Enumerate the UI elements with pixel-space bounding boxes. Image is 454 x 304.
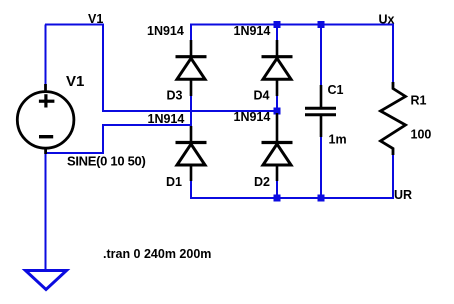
- junction square top D4: [274, 21, 281, 28]
- svg-text:100: 100: [411, 127, 432, 141]
- junction square top C1: [318, 21, 325, 28]
- svg-text:1N914: 1N914: [234, 110, 271, 124]
- wire vertical to ground: [45, 152, 47, 270]
- svg-text:1N914: 1N914: [234, 24, 271, 38]
- wire C1 column lower: [320, 135, 322, 199]
- wire D3 column upper: [190, 24, 192, 43]
- wire D4 column upper: [276, 24, 278, 43]
- svg-text:D1: D1: [166, 175, 182, 189]
- resistor R1: [381, 82, 406, 155]
- svg-text:1N914: 1N914: [147, 24, 184, 38]
- svg-text:V1: V1: [88, 12, 103, 26]
- svg-text:SINE(0 10 50): SINE(0 10 50): [67, 154, 145, 169]
- svg-text:D4: D4: [254, 89, 270, 103]
- wire horizontal AC input to D3/D1 midpoint: [102, 124, 192, 126]
- diode D3: [176, 40, 207, 96]
- svg-text:V1: V1: [66, 73, 84, 90]
- svg-text:D3: D3: [167, 89, 183, 103]
- diode D1: [176, 126, 207, 181]
- wire C1 column upper: [320, 24, 322, 88]
- wire top-left vertical from V1 plus: [45, 25, 47, 87]
- capacitor C1: [305, 85, 336, 137]
- svg-text:.tran 0 240m 200m: .tran 0 240m 200m: [103, 247, 211, 261]
- diode D4: [262, 40, 293, 96]
- svg-text:C1: C1: [328, 83, 344, 97]
- ground: [26, 271, 67, 290]
- wire R1 column lower: [392, 153, 394, 199]
- svg-text:R1: R1: [411, 94, 427, 108]
- wire vertical x=103 down to node A: [102, 24, 104, 113]
- wire horizontal AC input to D4/D2 midpoint: [102, 110, 278, 112]
- svg-text:1m: 1m: [329, 133, 347, 147]
- svg-text:1N914: 1N914: [148, 112, 185, 126]
- wire D2 column lower: [276, 179, 278, 199]
- wire vertical x=103 from minus path: [102, 124, 104, 154]
- wire D4 column lower to node: [276, 94, 278, 112]
- junction square bottom C1: [318, 195, 325, 202]
- wire R1 column upper: [392, 24, 394, 85]
- wire top rail Ux: [190, 24, 394, 26]
- wire D3 column lower to node: [190, 94, 192, 126]
- wire top-left horizontal: [45, 24, 104, 26]
- svg-text:Ux: Ux: [379, 13, 395, 27]
- svg-text:D2: D2: [254, 175, 270, 189]
- diode D2: [262, 113, 293, 181]
- wire D1 column lower: [190, 179, 192, 199]
- voltage source V1: [17, 84, 74, 154]
- junction square D4/D2 midpoint: [274, 108, 281, 115]
- wire bottom-left horizontal from V1 minus: [45, 152, 104, 154]
- junction square bottom D2: [274, 195, 281, 202]
- wire bottom rail UR: [190, 197, 394, 199]
- svg-text:UR: UR: [394, 188, 412, 202]
